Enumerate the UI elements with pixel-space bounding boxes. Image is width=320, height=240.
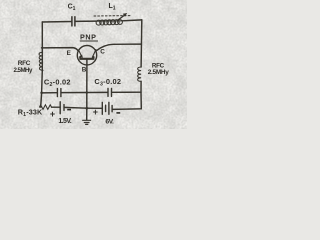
svg-text:PNP: PNP [80,33,96,42]
RFC choke right (2.5 MHy) [138,67,141,81]
battery B1 1.5V [60,102,64,114]
resistor R1 33K [39,105,51,110]
transistor Q1 collector stroke [92,50,96,58]
wire base lead [86,60,88,109]
capacitor C3 [108,88,112,96]
wire C2 branch left [42,92,57,94]
capacitor C2 [57,89,61,97]
label battery B2 minus [116,112,120,114]
wire left vertical [41,22,43,107]
svg-text:+: + [50,109,55,119]
wire top rail right segment [122,19,141,22]
wire right vertical upper [140,20,143,67]
svg-text:C: C [100,49,105,56]
wire top rail mid segment [75,20,96,22]
wire C2 branch right [61,92,87,94]
svg-text:E: E [67,50,72,57]
RFC choke left (2.5 MHy) [39,52,43,70]
svg-text:+: + [93,107,98,117]
svg-text:C3-0.02: C3-0.02 [94,77,121,88]
capacitor C1 [72,17,75,26]
svg-text:RFC: RFC [18,60,31,67]
svg-text:1.5V.: 1.5V. [58,118,71,125]
wire emitter lead [42,48,79,52]
label PNP underline [80,40,98,42]
wire collector lead [96,44,141,51]
ground [83,108,91,124]
inductor L1 [96,20,122,26]
svg-text:B: B [82,67,87,74]
wire right vertical lower [140,81,142,108]
wire C3 branch left [87,91,108,93]
node junction base-C2-C3 [86,91,89,94]
node junction C2-left [40,92,43,95]
svg-text:6V.: 6V. [105,119,114,126]
transistor Q1 circle [77,46,96,65]
node junction ground-rail [85,107,88,110]
svg-text:2.5MHy: 2.5MHy [148,69,170,76]
L1 core dashed line [94,15,130,17]
svg-text:2.5MHy: 2.5MHy [14,67,33,74]
wire C3 branch right [112,91,141,93]
svg-text:C2-0.02: C2-0.02 [44,77,71,88]
transistor Q1 base bar [80,57,93,59]
wire bottom rail right segment [112,108,141,111]
wire top rail left segment [42,21,71,24]
wire bottom rail mid segment [87,107,102,109]
wire bottom rail left-mid segment [64,106,86,109]
L1 tuning arrow [117,13,127,21]
transistor Q1 emitter arrow [79,50,83,58]
battery B2 6V [102,102,112,114]
label battery B1 minus [67,109,71,111]
wire bottom rail to resistor [52,106,60,108]
